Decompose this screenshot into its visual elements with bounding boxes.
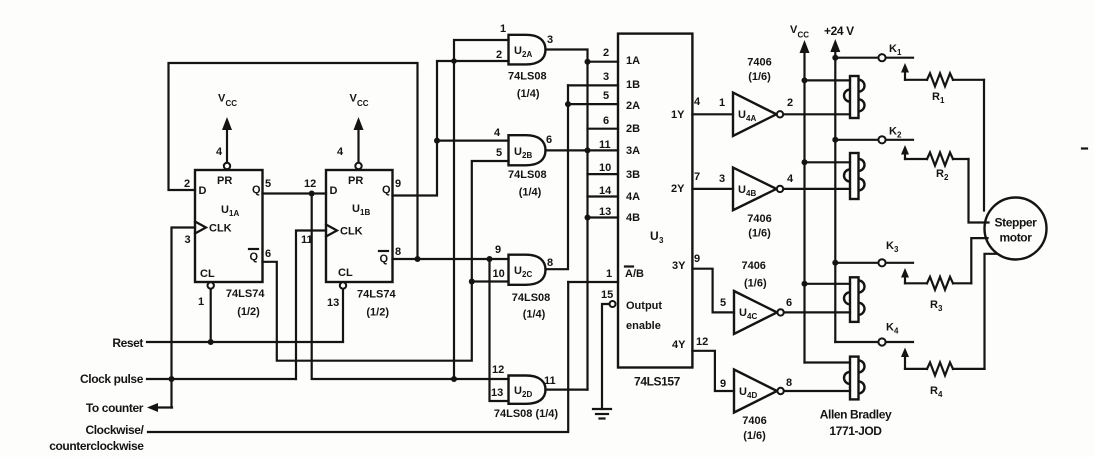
wire R1 to motor [983, 80, 985, 211]
svg-text:10: 10 [599, 162, 611, 174]
svg-text:9: 9 [395, 178, 401, 190]
stepper motor [985, 198, 1047, 260]
svg-text:2: 2 [944, 173, 949, 182]
svg-text:(1/4): (1/4) [523, 309, 546, 321]
svg-text:6: 6 [603, 115, 609, 127]
K3 plug arrow [901, 268, 909, 283]
svg-text:U: U [514, 385, 522, 397]
svg-text:8: 8 [395, 246, 401, 258]
svg-text:Reset: Reset [112, 336, 143, 350]
label 7406 (1/6) for U4C [741, 260, 766, 290]
svg-text:4B: 4B [746, 189, 756, 198]
label 74LS08 (1/4) for U2D [494, 408, 559, 420]
flip-flop U1B (74LS74) [326, 170, 393, 282]
svg-text:U: U [514, 146, 522, 158]
svg-text:4: 4 [216, 146, 223, 158]
wire: U1A Qbar pin6 to bus [263, 161, 509, 361]
svg-text:3: 3 [603, 71, 609, 83]
svg-text:To counter: To counter [86, 401, 144, 415]
label 74LS74 (1/2) for U1B [357, 289, 396, 319]
svg-text:4D: 4D [747, 391, 757, 400]
svg-text:74LS08: 74LS08 [508, 71, 547, 83]
AND gate U2A (74LS08) [509, 35, 546, 65]
svg-text:12: 12 [492, 364, 504, 376]
svg-text:4: 4 [894, 327, 899, 336]
svg-text:Q: Q [382, 184, 391, 196]
svg-text:2D: 2D [522, 390, 532, 399]
U2C output wire to U3 pins 3/5 [546, 85, 569, 269]
svg-text:1A: 1A [626, 55, 640, 67]
svg-text:8: 8 [547, 257, 553, 269]
svg-text:4A: 4A [626, 191, 640, 203]
wire pin 15 to ground [602, 304, 610, 409]
svg-text:2Y: 2Y [671, 183, 685, 195]
svg-text:U: U [739, 307, 747, 319]
svg-text:R: R [932, 91, 940, 103]
label To counter [86, 401, 144, 415]
svg-text:PR: PR [217, 175, 232, 187]
U2D output wire to U3 pin 13 riser [546, 389, 588, 391]
svg-text:(1/4): (1/4) [519, 187, 542, 199]
svg-text:(1/6): (1/6) [743, 430, 766, 442]
svg-text:CLK: CLK [340, 226, 363, 238]
svg-text:Clockwise/: Clockwise/ [85, 423, 144, 437]
wire Vcc to module 2 [805, 161, 851, 163]
svg-text:2A: 2A [522, 50, 532, 59]
svg-text:4: 4 [694, 96, 701, 108]
U4C output wire to module 3 [784, 311, 850, 313]
svg-text:Allen Bradley: Allen Bradley [820, 408, 892, 422]
U2B pin labels [494, 127, 552, 159]
label Clockwise/counterclockwise [49, 423, 144, 453]
U1B preset bubble pin 4 [337, 146, 362, 169]
svg-text:12: 12 [696, 336, 708, 348]
U3 input pin ladder [565, 59, 618, 221]
label 7406 (1/6) for U4D [742, 415, 766, 442]
svg-text:2B: 2B [626, 123, 640, 135]
svg-text:4: 4 [787, 173, 794, 185]
svg-text:PR: PR [348, 175, 363, 187]
output module 2 (Allen Bradley) [844, 153, 865, 199]
svg-text:2: 2 [787, 97, 793, 109]
inverter U4C (7406) [734, 291, 784, 334]
svg-text:15: 15 [601, 289, 613, 301]
svg-text:+24 V: +24 V [824, 24, 854, 38]
svg-text:D: D [330, 185, 338, 197]
svg-text:7: 7 [694, 171, 700, 183]
svg-text:4: 4 [337, 146, 344, 158]
K4 plug arrow [901, 348, 909, 369]
svg-text:3: 3 [185, 234, 191, 246]
K1 plug arrow [901, 63, 909, 80]
svg-text:3: 3 [659, 236, 664, 245]
svg-text:counterclockwise: counterclockwise [49, 439, 144, 453]
stray mark [1082, 147, 1087, 149]
svg-text:U: U [738, 109, 746, 121]
svg-text:3A: 3A [626, 145, 640, 157]
output module 3 (Allen Bradley) [844, 277, 865, 322]
U2B pin 4 input wire [434, 138, 509, 144]
svg-text:74LS74: 74LS74 [357, 289, 396, 301]
svg-text:Q: Q [380, 253, 389, 265]
svg-text:11: 11 [599, 139, 611, 151]
terminal K1 [835, 43, 913, 61]
U2D pin 13 feed from U1B Qbar [490, 259, 509, 401]
svg-text:R: R [930, 299, 938, 311]
Vcc rail [790, 24, 810, 363]
svg-text:U: U [514, 265, 522, 277]
resistor R4 [905, 362, 985, 399]
svg-text:U: U [739, 386, 747, 398]
svg-text:2: 2 [496, 49, 502, 61]
svg-text:2C: 2C [522, 270, 532, 279]
svg-text:10: 10 [493, 268, 505, 280]
svg-text:13: 13 [491, 387, 503, 399]
U4D output wire to module 4 [784, 390, 850, 392]
terminal K4 [835, 322, 913, 346]
svg-text:3: 3 [719, 173, 725, 185]
svg-text:Clock pulse: Clock pulse [80, 372, 144, 386]
U2C pin labels [493, 244, 554, 280]
label Clock pulse [80, 372, 144, 386]
wire: U1A Q pin5 to U1B D pin12 [263, 191, 327, 197]
svg-text:7406: 7406 [747, 213, 771, 225]
svg-text:A/B: A/B [625, 268, 644, 280]
svg-text:R: R [930, 385, 938, 397]
wire: U1B CLK pin 11 riser [296, 231, 326, 380]
svg-text:6: 6 [546, 134, 552, 146]
wire: feedback U1B Qbar to U1A D (top loop) [169, 63, 418, 259]
svg-text:1B: 1B [626, 79, 640, 91]
U2A pin labels [496, 23, 553, 61]
K2 plug arrow [901, 145, 909, 159]
inverter U4A (7406) [733, 93, 783, 136]
pin number labels around flip-flops [184, 178, 401, 260]
svg-text:5: 5 [720, 297, 726, 309]
svg-text:(1/4): (1/4) [517, 88, 540, 100]
wire Clock bus [147, 376, 296, 382]
svg-text:(1/6): (1/6) [744, 278, 767, 290]
svg-text:enable: enable [626, 320, 661, 332]
wire Vcc to module 3 [805, 283, 851, 285]
svg-text:motor: motor [1000, 231, 1033, 245]
wire: U1B Qbar pin 8 to U2C pin 9 [393, 256, 509, 262]
svg-text:74LS08 (1/4): 74LS08 (1/4) [494, 408, 559, 420]
inverter U4B (7406) [733, 168, 783, 211]
U3 input pin numbers [599, 47, 612, 218]
svg-text:4A: 4A [746, 114, 756, 123]
svg-text:1771-JOD: 1771-JOD [829, 424, 882, 438]
svg-text:9: 9 [495, 244, 501, 256]
svg-text:13: 13 [599, 206, 611, 218]
svg-text:(1/2): (1/2) [237, 306, 260, 318]
label Reset [112, 336, 143, 350]
svg-text:1: 1 [198, 296, 204, 308]
U2B output wire to U3 pin 11 [546, 147, 619, 153]
svg-text:3: 3 [938, 304, 943, 313]
wire U3 3Y to U4C [692, 269, 734, 313]
svg-text:Q: Q [250, 251, 259, 263]
svg-text:8: 8 [786, 377, 792, 389]
svg-text:5: 5 [603, 90, 609, 102]
U2C pin 9/10 junction dots [469, 256, 509, 285]
svg-text:3: 3 [547, 34, 553, 46]
svg-text:(1/6): (1/6) [748, 228, 771, 240]
+24 V rail [824, 24, 854, 342]
U4A output wire to module 1 [784, 113, 851, 115]
svg-text:1: 1 [606, 268, 612, 280]
svg-text:3Y: 3Y [672, 260, 686, 272]
svg-text:1: 1 [500, 23, 506, 35]
svg-text:4C: 4C [747, 312, 757, 321]
svg-text:2: 2 [184, 178, 190, 190]
svg-text:4: 4 [494, 127, 501, 139]
svg-text:1B: 1B [360, 208, 370, 217]
svg-text:CLK: CLK [209, 223, 232, 235]
svg-text:7406: 7406 [747, 57, 771, 69]
label 74LS74 (1/2) for U1A [226, 288, 265, 318]
wire To counter with arrow [147, 403, 172, 412]
label 74LS08 (1/4) for U2C [512, 292, 551, 321]
wire R3 to motor [971, 238, 987, 283]
svg-text:Q: Q [252, 184, 261, 196]
wire U3 2Y to U4B [692, 188, 733, 190]
svg-text:11: 11 [544, 375, 556, 387]
svg-text:6: 6 [265, 248, 271, 260]
svg-text:U: U [352, 203, 360, 215]
svg-text:9: 9 [694, 253, 700, 265]
svg-text:2: 2 [603, 47, 609, 59]
wire Vcc to module 4 [805, 361, 851, 363]
wire Reset bus [147, 339, 343, 345]
wire: U1A CLK pin 3 riser [172, 228, 196, 408]
U2A pin 1 input wire [451, 40, 509, 382]
svg-text:5: 5 [496, 147, 502, 159]
svg-text:74LS08: 74LS08 [508, 169, 547, 181]
svg-text:1A: 1A [229, 209, 239, 218]
U4D pin labels [720, 377, 792, 390]
U4A pin labels [719, 97, 793, 109]
label Allen Bradley 1771-JOD [820, 408, 892, 439]
AND gate U2B (74LS08) [509, 135, 546, 165]
svg-text:4B: 4B [626, 212, 640, 224]
svg-text:CC: CC [226, 99, 238, 108]
resistor R3 [905, 277, 971, 313]
U1A Vcc arrow [218, 93, 237, 163]
U4C pin labels [720, 297, 792, 309]
label 74LS08 (1/4) for U2B [508, 169, 547, 199]
U3 select pin 1 A/B wire [568, 268, 618, 282]
label 7406 (1/6) for U4A [747, 57, 771, 84]
U4B pin labels [719, 173, 794, 185]
U4B output wire to module 2 [784, 188, 851, 190]
resistor R2 [905, 153, 969, 183]
svg-text:CC: CC [357, 99, 369, 108]
wire: U1A Q riser to lower bus [312, 194, 509, 380]
svg-text:4Y: 4Y [672, 339, 686, 351]
U3 pin 15 output enable bubble [601, 289, 616, 307]
svg-text:13: 13 [327, 297, 339, 309]
label 74LS08 (1/4) for U2A [508, 71, 547, 101]
wire U3 1Y to U4A [692, 113, 733, 115]
svg-text:1Y: 1Y [671, 109, 685, 121]
svg-text:14: 14 [599, 185, 612, 197]
svg-text:K: K [889, 126, 897, 138]
svg-text:(1/2): (1/2) [366, 307, 389, 319]
U1B Vcc arrow [350, 93, 369, 163]
svg-text:U: U [738, 184, 746, 196]
svg-text:74LS157: 74LS157 [634, 375, 681, 389]
multiplexer U3 (74LS157) [618, 34, 692, 368]
output module 4 (Allen Bradley) [844, 357, 865, 400]
wire Clockwise select to U3 A/B [148, 282, 568, 432]
svg-text:(1/6): (1/6) [748, 71, 771, 83]
svg-text:CC: CC [798, 31, 810, 40]
svg-text:3: 3 [894, 245, 899, 254]
U2A output wire to ladder [546, 50, 588, 390]
wire Vcc to module 1 [805, 79, 851, 81]
svg-text:U: U [514, 45, 522, 57]
ground symbol [593, 409, 611, 419]
output module 1 (Allen Bradley) [844, 76, 865, 118]
resistor R1 [905, 73, 984, 105]
svg-text:Stepper: Stepper [995, 216, 1038, 230]
svg-text:D: D [199, 185, 207, 197]
svg-text:9: 9 [720, 378, 726, 390]
svg-text:CL: CL [200, 268, 215, 280]
svg-text:U: U [650, 229, 658, 243]
svg-text:1: 1 [719, 97, 725, 109]
svg-text:12: 12 [304, 178, 316, 190]
label 7406 (1/6) for U4B [747, 213, 771, 240]
wire U3 4Y to U4D [692, 351, 734, 391]
U1A clear bubble pin 1 [198, 282, 214, 342]
terminal K3 [835, 240, 913, 266]
wire: U1B Q pin 9 [393, 61, 509, 196]
label 74LS157 [634, 375, 681, 389]
svg-text:6: 6 [786, 297, 792, 309]
svg-text:7406: 7406 [742, 415, 766, 427]
inverter U4D (7406) [734, 370, 784, 413]
U1A preset bubble pin 4 [216, 146, 230, 169]
svg-text:2A: 2A [626, 100, 640, 112]
svg-text:Output: Output [626, 300, 662, 312]
wire R4 to motor [985, 254, 997, 369]
U2D pin labels [491, 364, 556, 399]
svg-text:U: U [221, 204, 229, 216]
AND gate U2C (74LS08) [509, 255, 546, 285]
svg-text:CL: CL [338, 267, 353, 279]
svg-text:1: 1 [897, 48, 902, 57]
svg-text:5: 5 [265, 178, 271, 190]
svg-text:1: 1 [940, 96, 945, 105]
flip-flop U1A (74LS74) [195, 170, 263, 282]
wire R2 to motor [969, 159, 989, 223]
svg-text:R: R [936, 168, 944, 180]
U3 output pin numbers [694, 96, 708, 348]
svg-text:K: K [886, 322, 894, 334]
AND gate U2D (74LS08) [509, 376, 546, 404]
svg-text:74LS08: 74LS08 [512, 292, 551, 304]
svg-text:4: 4 [938, 390, 943, 399]
svg-text:7406: 7406 [741, 260, 765, 272]
svg-text:K: K [886, 240, 894, 252]
svg-text:74LS74: 74LS74 [226, 288, 265, 300]
svg-text:K: K [889, 43, 897, 55]
svg-text:2B: 2B [522, 151, 532, 160]
svg-text:3B: 3B [626, 169, 640, 181]
svg-text:2: 2 [897, 131, 902, 140]
terminal K2 [835, 126, 913, 144]
U1B clear bubble pin 13 [327, 282, 346, 341]
